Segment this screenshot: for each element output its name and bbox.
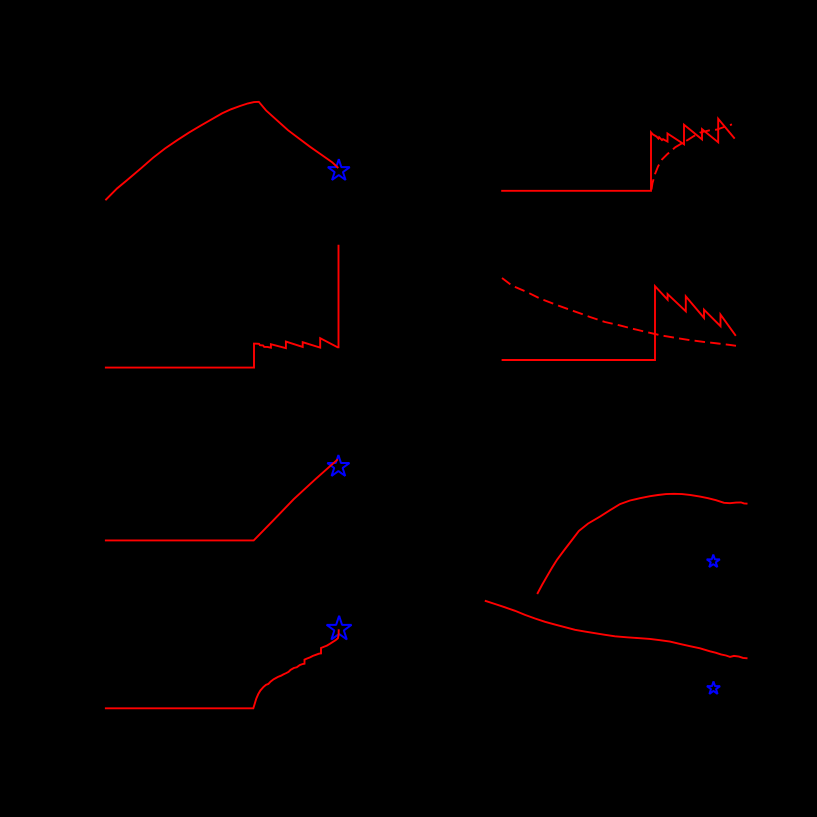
panel 8 bottom-right lower: slowly declining curve [485,601,748,659]
panel 5 top-right: dashed saturating curve [652,124,733,189]
star marker S4 [327,616,352,640]
panel 7 bottom-right upper: steep saturating rise curve [537,494,747,594]
panel 3 third-left: flat then straight rise to star [105,459,338,540]
panel 5 top-right: flat, jump, solid sawtooth [501,119,735,191]
panel 6 mid-right: flat, jump, declining sawtooth [502,286,736,360]
panel 1 top-left: rising/falling red curve [105,102,338,200]
star marker S3 [327,455,349,476]
panel 4 fourth-left: flat then stepped concave rise to star [105,629,339,708]
star marker S5 small [707,555,720,567]
star marker S1 top-left [328,159,350,180]
panel 6 mid-right: dashed decaying curve [502,278,736,346]
panel 2 mid-left: flat line with staircase and vertical spike [105,245,339,368]
star marker S6 small [707,681,720,693]
